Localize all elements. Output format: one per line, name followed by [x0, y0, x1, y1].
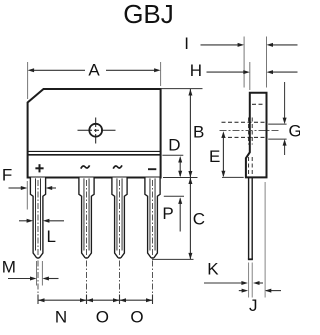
svg-text:J: J — [249, 296, 258, 315]
svg-text:N: N — [55, 307, 67, 326]
svg-text:G: G — [289, 122, 301, 141]
svg-text:C: C — [193, 209, 205, 228]
svg-text:E: E — [209, 147, 220, 166]
svg-text:K: K — [207, 260, 219, 279]
svg-text:D: D — [168, 136, 180, 155]
svg-text:O: O — [96, 307, 109, 326]
svg-text:A: A — [88, 61, 100, 80]
svg-text:B: B — [193, 122, 204, 141]
svg-text:GBJ: GBJ — [123, 0, 174, 29]
svg-text:L: L — [47, 227, 56, 246]
svg-text:P: P — [162, 204, 173, 223]
svg-text:M: M — [2, 257, 16, 276]
svg-text:O: O — [130, 307, 143, 326]
svg-text:H: H — [190, 61, 202, 80]
svg-text:I: I — [184, 34, 189, 53]
svg-text:F: F — [2, 166, 12, 185]
